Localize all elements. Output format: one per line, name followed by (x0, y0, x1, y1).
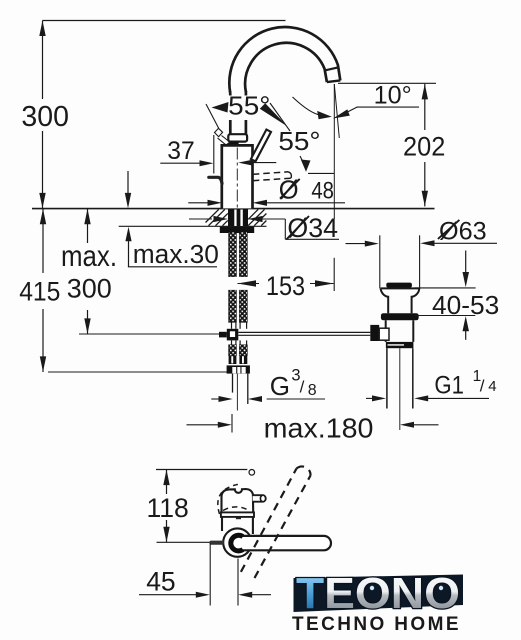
pop-up drain cap (386, 283, 412, 288)
dim 415 bottom reference line (48, 371, 227, 373)
dashed spout tip circle (249, 470, 255, 476)
ghost lever outline (215, 128, 223, 136)
svg-text:G: G (270, 371, 290, 401)
pop-up rod tab (210, 541, 225, 545)
riser right edge (245, 91, 248, 134)
label Ø34 with leader (189, 218, 212, 220)
dim max.180 (187, 424, 220, 426)
side view collar band (221, 512, 254, 517)
spout vertical projection line (333, 84, 335, 219)
dashed inner arc (223, 507, 250, 511)
hose connectors (232, 322, 247, 329)
G 3/8 arrows (211, 398, 220, 400)
spout nozzle (327, 80, 340, 82)
10 deg arc (293, 97, 322, 115)
dim 300 vertical line (42, 21, 44, 100)
label G1 1/4 with arrows (366, 397, 374, 399)
faucet body (222, 145, 253, 208)
supply pipe (232, 374, 234, 393)
dim 40-53 (415, 287, 476, 289)
braided hoses segment C (229, 345, 237, 356)
deck hatch right (248, 209, 266, 225)
svg-text:max.: max. (61, 240, 117, 273)
deck hatch left (206, 209, 228, 225)
label max.30 with leader (125, 227, 131, 242)
svg-text:55°: 55° (278, 128, 320, 156)
linkage rod reference line (79, 333, 228, 335)
dim 300 top reference line (43, 20, 286, 22)
side view top reference line (156, 469, 247, 471)
shank through deck (228, 209, 248, 226)
black band on body top (229, 142, 238, 146)
svg-text:G1: G1 (434, 371, 464, 399)
deck bottom line (119, 225, 267, 227)
dim max300 arrow up (84, 209, 90, 225)
svg-text:202: 202 (403, 132, 445, 162)
svg-text:37: 37 (167, 138, 194, 165)
dim 202 reference line (338, 82, 436, 84)
dim max300 vertical line (87, 209, 89, 243)
dim 300 arrow down (39, 193, 45, 209)
braided hoses segment B (229, 290, 237, 322)
svg-text:300: 300 (67, 273, 112, 303)
dim 202 vertical line (424, 84, 426, 130)
svg-text:/: / (480, 377, 485, 396)
side view faucet dome (222, 489, 254, 512)
deck top line (32, 208, 435, 210)
svg-text:Ø34: Ø34 (287, 213, 338, 243)
linkage rod to drain (238, 331, 370, 333)
svg-text:/: / (300, 378, 305, 397)
side view spout capsule (232, 536, 331, 550)
dim 300 arrow up (39, 21, 45, 37)
dashed swing arc (218, 484, 242, 514)
drain collar (386, 342, 414, 348)
svg-text:TEONO: TEONO (296, 569, 460, 618)
dashed raised spout (241, 466, 311, 578)
dim 153 (238, 283, 260, 285)
mounting flange under deck (220, 227, 254, 233)
tee fitting (227, 329, 239, 341)
svg-text:40-53: 40-53 (432, 292, 499, 320)
ghost plane line (213, 135, 215, 174)
collar (228, 134, 247, 141)
body centerline (236, 148, 238, 209)
handle lever (251, 130, 271, 162)
svg-text:415: 415 (19, 277, 60, 307)
svg-text:48: 48 (311, 178, 334, 205)
side view deck line (157, 541, 210, 543)
riser left edge (229, 91, 232, 134)
dim 118 (166, 470, 168, 495)
shank nut (227, 365, 250, 373)
svg-text:4: 4 (488, 378, 496, 395)
dim 415 arrow up (40, 209, 46, 225)
drain body (386, 320, 414, 342)
hose end fittings (229, 356, 237, 364)
svg-text:TECHNO HOME: TECHNO HOME (292, 614, 461, 635)
svg-text:8: 8 (308, 382, 317, 399)
logo background (294, 575, 464, 613)
pop-up rod hook behind body (209, 177, 222, 183)
connectors below tee (232, 340, 247, 344)
svg-text:10°: 10° (374, 82, 412, 110)
drain rod knob (370, 325, 379, 341)
spout tilted axis line (334, 84, 339, 138)
label Ø48 with arrows (188, 202, 208, 204)
drain flange (381, 288, 420, 313)
drain o-ring (381, 313, 419, 320)
alternate spout dashed lines (253, 172, 288, 175)
svg-text:300: 300 (21, 101, 69, 133)
label Ø63 with arrows (346, 243, 367, 245)
deck marker arrow (127, 171, 129, 195)
svg-text:153: 153 (266, 271, 305, 301)
side view body (222, 517, 253, 534)
dim 415 arrow down (40, 356, 46, 372)
spout inner arc (245, 43, 327, 92)
spout outer arc (229, 27, 340, 92)
svg-text:max.180: max.180 (264, 412, 374, 443)
drain tailpipe (386, 348, 388, 408)
spout reach tick line (333, 258, 335, 291)
drain extension ticks (379, 235, 381, 288)
svg-text:45: 45 (146, 566, 175, 596)
svg-text:118: 118 (147, 493, 189, 523)
svg-text:max.30: max.30 (133, 239, 219, 269)
dim max300 arrow down (84, 318, 90, 334)
37 right arrow (238, 160, 253, 166)
dim 415 vertical line (42, 209, 44, 273)
logo O highlights (370, 586, 374, 590)
escutcheon circle (223, 528, 251, 556)
braided hoses segment A (229, 232, 237, 277)
side view lever stub (253, 495, 266, 502)
